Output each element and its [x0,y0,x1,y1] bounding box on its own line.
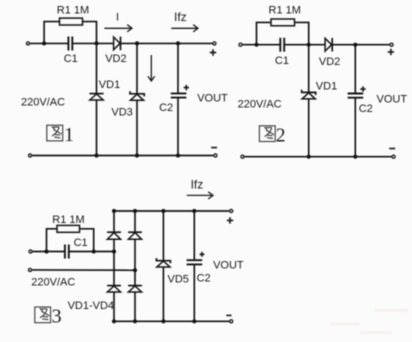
wire [121,42,213,44]
svg-text:Ifz: Ifz [191,177,204,191]
diode VD1 [89,94,103,100]
watermark remnant smudges (bottom-right) [330,309,408,335]
wire [354,45,356,94]
wire [308,99,310,157]
node: R1/C1 left junction [254,43,258,47]
wire [257,22,309,44]
wire [243,44,280,46]
current arrow Ifz [171,25,198,32]
zener diode VD3 [130,91,144,100]
current arrow I [104,25,132,32]
svg-text:220V/AC: 220V/AC [31,277,75,289]
zener diode VD1 [302,90,316,99]
svg-text:VOUT: VOUT [213,259,244,271]
node: leg2 bottom [133,319,137,323]
svg-text:VOUT: VOUT [197,93,228,105]
svg-text:C2: C2 [359,103,373,115]
label: figure 1 caption [47,124,74,146]
diode VD4 (bridge leg2 lower) [128,286,142,292]
wire [32,269,135,271]
current arrow Ifz [187,192,213,199]
label: - output polarity [211,147,217,149]
svg-text:VOUT: VOUT [377,93,408,105]
label: + C2 polarity [200,252,205,257]
terminal: output - right [230,320,233,323]
terminal: AC input lower-left [28,268,31,271]
svg-text:R1 1M: R1 1M [57,5,89,17]
diode VD3 (bridge leg2 upper) [128,232,142,239]
terminal: output - bottom-right [214,154,217,157]
wire [162,211,164,261]
wire [136,43,138,93]
terminal: AC input bottom-left [241,155,244,158]
label: + output polarity [388,49,394,55]
wire [113,211,115,232]
svg-text:R1 1M: R1 1M [52,214,84,226]
label: + output polarity [210,49,216,55]
wire [245,156,392,158]
wire [44,22,96,44]
wire [96,100,98,156]
svg-text:3: 3 [52,306,62,328]
wire [354,98,356,157]
svg-text:VD1-VD4: VD1-VD4 [68,300,114,312]
node: C2 bottom junction [353,155,357,159]
label: + C2 polarity [360,86,365,91]
node: leg2 top [133,209,137,213]
node: VD5 top [161,209,165,213]
zener diode VD5 [156,258,170,267]
node: C2 top junction [353,43,357,47]
wire [134,211,136,232]
terminal: AC input top-left [239,43,242,46]
svg-text:VD5: VD5 [168,274,189,286]
capacitor C1 [65,245,69,259]
wire [193,264,195,321]
wire [69,251,114,253]
wire [30,42,68,44]
terminal: AC input bottom-left [28,154,31,157]
label: figure 2 caption [259,124,285,146]
wire [162,267,164,321]
wire [177,98,179,156]
label: + C2 polarity [184,85,189,90]
capacitor C1 [280,38,284,52]
node: R1/C1 right junction [92,249,96,253]
wire [308,45,310,92]
wire [114,210,229,212]
diode VD2 (bridge leg1 lower) [107,286,121,292]
node: C2 top [192,209,196,213]
terminal: output + right [230,209,233,212]
svg-text:C2: C2 [197,272,211,284]
wire [193,211,195,260]
diode VD1 (bridge leg1 upper) [107,232,121,239]
node: R1/C1 left junction [42,41,46,45]
svg-text:VD2: VD2 [105,53,126,65]
wire [136,100,138,155]
wire [134,239,136,285]
wire [285,44,325,46]
svg-text:220V/AC: 220V/AC [238,98,282,110]
svg-text:VD1: VD1 [99,79,120,91]
node: C2 top junction [176,41,180,45]
wire [114,320,229,322]
diode VD2 [325,38,332,52]
svg-text:R1 1M: R1 1M [269,5,301,17]
node: VD3 top junction [135,41,139,45]
node: VD1 top junction [307,43,311,47]
wire [96,43,98,93]
wire [32,155,213,157]
node: bridge leg1 mid junction [112,249,116,253]
capacitor C2 (polarized) [348,94,364,98]
label: figure 3 caption [35,306,62,328]
node: VD1 top junction [94,41,98,45]
svg-text:Ifz: Ifz [174,10,187,24]
node: VD1 bottom junction [94,153,98,157]
label: - output polarity [226,314,231,316]
capacitor C2 (polarized) [187,260,203,264]
wire [134,292,136,321]
node: VD3 bottom junction [135,153,139,157]
terminal: AC input upper-left [29,250,32,253]
wire [113,239,115,285]
svg-text:C2: C2 [159,102,173,114]
svg-text:220V/AC: 220V/AC [21,97,65,109]
svg-text:C1: C1 [74,237,88,249]
node: bridge leg2 mid junction [133,268,137,272]
svg-text:C1: C1 [64,53,78,65]
terminal: output + top-right [390,43,393,46]
resistor R1 [271,19,295,26]
svg-text:C1: C1 [275,55,289,67]
wire [177,43,179,93]
node: R1/C1 left junction [44,249,48,253]
svg-text:I: I [116,12,119,24]
terminal: AC input top-left [26,42,29,45]
resistor R1 [60,18,83,25]
capacitor C1 [68,37,72,51]
wire [332,44,389,46]
capacitor C2 (polarized) [171,93,187,97]
wire [73,42,114,44]
resistor R1 [57,225,80,232]
node: VD5 bottom [161,319,165,323]
node: leg1 bottom [112,319,116,323]
node: leg1 top [112,209,116,213]
node: C2 bottom [192,319,196,323]
wire [113,292,115,321]
wire [33,251,65,253]
svg-text:VD3: VD3 [111,106,132,118]
svg-text:VD2: VD2 [319,56,340,68]
node: C2 bottom junction [176,153,180,157]
wire [47,229,94,252]
svg-text:2: 2 [276,124,286,146]
label: + output polarity [227,217,233,223]
svg-text:1: 1 [64,124,74,146]
diode VD2 [114,37,121,51]
terminal: output - bottom-right [392,155,395,158]
label: - output polarity [389,148,395,150]
current arrow: VD3 branch downward [148,55,155,81]
svg-text:VD1: VD1 [316,81,337,93]
node: VD1 bottom junction [307,155,311,159]
terminal: output + top-right [213,42,216,45]
